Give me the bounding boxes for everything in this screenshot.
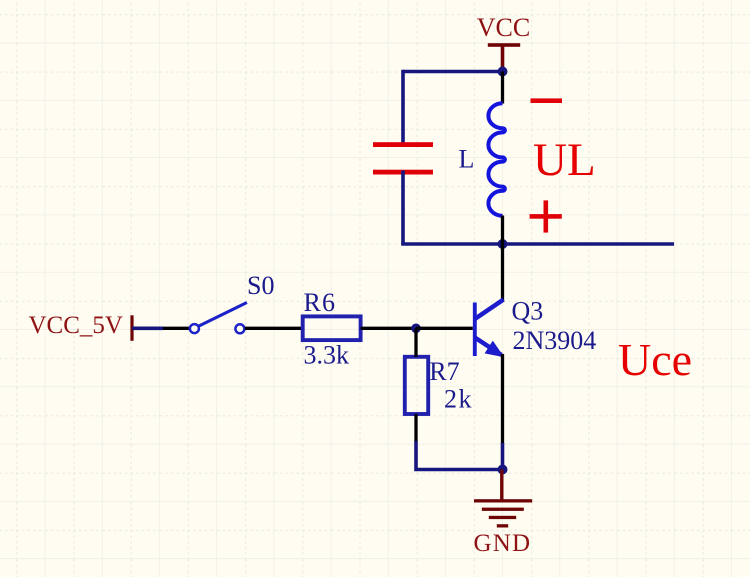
wire R6 to base node (361, 327, 416, 330)
transistor Q3 emitter pin (501, 354, 504, 444)
ground GND (474, 470, 533, 558)
wire bottom horizontal to right (401, 242, 674, 246)
svg-text:2N3904: 2N3904 (513, 326, 597, 355)
inductor pin top (501, 72, 504, 104)
svg-text:R7: R7 (429, 357, 459, 386)
wire top horizontal (403, 70, 503, 74)
svg-text:R6: R6 (304, 288, 337, 317)
wire R7 to emitter node (416, 441, 503, 470)
R7 pin top (414, 328, 417, 357)
transistor Q3 (475, 300, 504, 357)
power port VCC_5V (29, 312, 134, 341)
svg-text:VCC_5V: VCC_5V (29, 312, 123, 339)
svg-text:L: L (459, 145, 475, 174)
inductor L coil (488, 103, 505, 216)
wire port to switch (132, 326, 163, 330)
svg-text:S0: S0 (247, 271, 274, 300)
switch S0 contact left (190, 324, 199, 333)
capacitor plate bottom (373, 170, 433, 175)
power port VCC (477, 13, 530, 72)
switch S0 pin right / wire to R6 (245, 327, 303, 330)
label plus sign (530, 200, 562, 232)
svg-text:3.3k: 3.3k (304, 341, 350, 370)
svg-text:VCC: VCC (477, 13, 530, 42)
svg-text:Q3: Q3 (512, 297, 544, 326)
svg-text:UL: UL (533, 134, 596, 186)
inductor pin bottom (501, 216, 504, 245)
junction node VCC/L/C (498, 67, 508, 77)
wire capacitor bottom (401, 171, 405, 245)
junction node L/collector (498, 239, 508, 249)
svg-text:Uce: Uce (618, 334, 692, 385)
switch S0 pin left (163, 327, 190, 330)
svg-text:2k: 2k (444, 385, 473, 414)
R7 pin bottom (414, 414, 417, 442)
transistor Q3 collector pin (501, 244, 504, 301)
switch S0 contact right (235, 324, 244, 333)
wire emitter to ground node (501, 443, 505, 470)
resistor R7 (405, 357, 428, 414)
capacitor plate top (373, 142, 433, 147)
svg-text:GND: GND (474, 530, 532, 557)
wire capacitor top (401, 70, 405, 147)
junction node base/R7 (411, 324, 421, 334)
label minus sign (531, 98, 563, 103)
switch S0 lever (199, 303, 247, 327)
resistor R6 (303, 316, 361, 340)
junction node emitter/R7/GND (498, 465, 508, 475)
wire node to transistor base (416, 327, 473, 330)
